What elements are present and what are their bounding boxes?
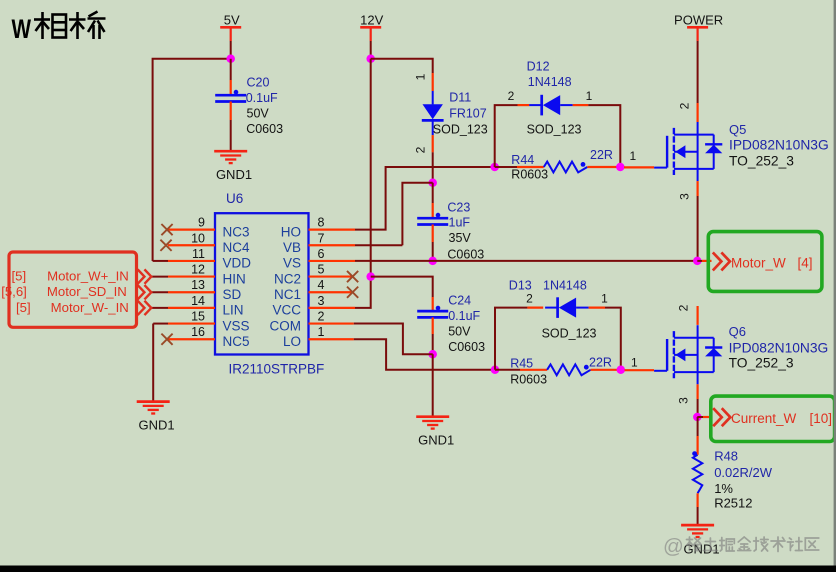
wire D12 pin2 branch <box>495 105 518 167</box>
right gray edge <box>834 0 836 566</box>
svg-text:3: 3 <box>678 193 692 200</box>
svg-text:5V: 5V <box>224 13 240 28</box>
svg-text:D12: D12 <box>527 60 550 74</box>
wire to Motor_W port <box>697 260 711 262</box>
ground GND1 under C20 <box>214 151 252 182</box>
wire VSS to GND1 <box>152 324 154 402</box>
port Current_W label <box>731 411 832 426</box>
label C23 35V <box>449 231 472 245</box>
label R48 1% <box>714 481 733 496</box>
svg-text:12V: 12V <box>360 13 383 28</box>
pin R45 right stub <box>591 369 621 371</box>
svg-text:SD: SD <box>223 287 242 302</box>
node 5V junction <box>226 55 235 64</box>
node R44-gate junction <box>616 163 625 172</box>
port chevron LIN <box>138 301 152 315</box>
pin D13-2 stub <box>527 307 543 309</box>
svg-text:1N4148: 1N4148 <box>543 278 587 292</box>
pin 8 HO stub <box>309 229 356 231</box>
svg-text:1: 1 <box>630 149 637 163</box>
svg-text:[5]: [5] <box>12 269 27 284</box>
svg-text:NC5: NC5 <box>223 334 250 349</box>
pin 1 LO stub <box>309 338 354 340</box>
pin Q5 source stub <box>696 181 698 196</box>
wire 12V rail down to VCC <box>355 59 371 308</box>
label D13 pin 2 <box>526 292 533 306</box>
svg-text:R48: R48 <box>714 449 738 464</box>
svg-text:1: 1 <box>318 325 325 339</box>
pin 7 VB stub <box>309 244 403 246</box>
svg-text:C0603: C0603 <box>246 122 283 136</box>
svg-text:D11: D11 <box>449 91 471 105</box>
pin R48 top stub <box>696 436 698 455</box>
node 12V junction <box>366 55 375 64</box>
label D13 footprint SOD_123 <box>542 327 597 341</box>
svg-text:1: 1 <box>586 89 593 103</box>
svg-text:GND1: GND1 <box>139 418 175 433</box>
capacitor C1 pins (C20) <box>215 80 246 120</box>
pin 2 COM stub <box>309 322 354 324</box>
label D12 footprint SOD_123 <box>527 122 582 136</box>
svg-text:D13: D13 <box>509 278 532 292</box>
svg-text:0.1uF: 0.1uF <box>448 309 480 323</box>
svg-text:1: 1 <box>414 73 428 80</box>
svg-text:35V: 35V <box>449 231 472 245</box>
op-amp U6 body (IR2110 driver) <box>215 213 309 354</box>
wire VS net <box>355 260 697 262</box>
svg-text:Current_W: Current_W <box>731 411 797 426</box>
label R48 designator <box>714 449 738 464</box>
pin 15 VSS stub <box>153 322 215 324</box>
label R45 designator <box>510 357 533 371</box>
svg-text:4: 4 <box>318 278 325 292</box>
resistor R48 <box>692 451 702 493</box>
label D13 pin 1 <box>601 292 608 306</box>
svg-text:Motor_W+_IN: Motor_W+_IN <box>47 269 129 284</box>
svg-text:POWER: POWER <box>674 13 723 28</box>
svg-text:9: 9 <box>198 216 205 230</box>
pin Q5 drain stub <box>696 103 698 122</box>
label C24 C0603 <box>448 340 485 354</box>
label R45 value 22R <box>589 356 612 370</box>
wire to Current_W port <box>697 416 712 418</box>
wire D13 pin1 branch <box>605 308 621 370</box>
svg-text:6: 6 <box>318 247 325 261</box>
wire Q6 source to Current_W node <box>697 399 699 417</box>
pin Q6 source stub <box>696 384 698 399</box>
node Motor_W junction <box>693 257 702 266</box>
svg-text:FR107: FR107 <box>449 107 487 121</box>
diode D11 <box>422 73 444 152</box>
node VB junction <box>428 179 437 188</box>
label D12 pin 1 <box>586 89 593 103</box>
svg-text:Motor_W-_IN: Motor_W-_IN <box>51 300 129 315</box>
pin 13 SD stub <box>152 291 215 293</box>
node HO-R44 junction <box>490 163 499 172</box>
label C20 designator <box>247 76 270 90</box>
label R44 designator <box>511 153 534 167</box>
title text W-phase bridge (W Xiang Qiao) <box>12 12 106 45</box>
svg-text:Q5: Q5 <box>729 122 746 137</box>
wire R44 junction to Q5 gate <box>624 166 654 168</box>
wire R45 junction to Q6 gate <box>625 369 655 371</box>
label C20 C0603 <box>246 122 283 136</box>
wire D13 pin2 branch <box>495 308 527 370</box>
wire D12 pin1 branch <box>588 105 620 167</box>
transistor Q6 <box>654 325 722 384</box>
label D11 footprint SOD_123 <box>433 122 488 136</box>
svg-text:11: 11 <box>192 247 205 261</box>
label D12 designator <box>527 60 550 74</box>
pin 16 NC5 stub <box>168 338 215 340</box>
port box Motor inputs <box>9 252 137 327</box>
label Q6 footprint TO_252_3 <box>729 356 794 371</box>
label U6 part IR2110STRPBF <box>229 362 325 377</box>
port Current_W chevron <box>713 408 730 426</box>
svg-text:2: 2 <box>508 89 515 103</box>
pin 11 VDD stub <box>153 260 215 262</box>
no-connect X pin10 <box>160 240 171 251</box>
svg-text:C0603: C0603 <box>447 248 484 262</box>
svg-text:10: 10 <box>191 231 205 245</box>
no-connect X pin16 <box>161 334 172 345</box>
wire Q5 source to Motor_W node <box>697 196 699 261</box>
label D13 designator <box>509 278 532 292</box>
label U6 pin names <box>223 224 302 349</box>
label Q6 designator <box>729 324 746 339</box>
svg-text:IPD082N10N3G: IPD082N10N3G <box>729 341 829 356</box>
svg-text:[10]: [10] <box>810 411 833 426</box>
wire VB pin7 loop <box>402 183 432 246</box>
svg-text:1%: 1% <box>714 481 733 496</box>
label Q6 pin 3 <box>677 397 691 404</box>
label U6 pin numbers <box>191 216 324 340</box>
svg-text:R44: R44 <box>511 153 534 167</box>
pin 9 NC3 stub <box>168 229 215 231</box>
diode D12 <box>529 95 573 116</box>
pin D13-1 stub <box>589 307 605 309</box>
label D12 value 1N4148 <box>528 75 572 89</box>
svg-text:GND1: GND1 <box>418 433 454 448</box>
node 12V-C24 junction <box>366 272 375 281</box>
svg-text:TO_252_3: TO_252_3 <box>729 154 794 169</box>
label Q5 pin 3 <box>678 193 692 200</box>
svg-text:GND1: GND1 <box>216 167 252 182</box>
label Q6 gate pin 1 <box>631 356 638 370</box>
svg-text:C0603: C0603 <box>448 340 485 354</box>
pin R44 right stub <box>587 166 620 168</box>
wire 5V junction to VDD loop <box>153 59 231 261</box>
capacitor C23 pins and wires <box>417 183 448 261</box>
svg-text:TO_252_3: TO_252_3 <box>729 356 794 371</box>
wire 12V to C24 <box>371 277 433 297</box>
label R44 value 22R <box>590 148 613 162</box>
svg-text:15: 15 <box>191 310 205 324</box>
svg-text:NC4: NC4 <box>223 240 250 255</box>
svg-text:0.1uF: 0.1uF <box>246 91 278 105</box>
wire R48 to GND1 <box>697 507 699 525</box>
svg-text:12: 12 <box>191 263 205 277</box>
wire POWER to Q5 drain <box>697 41 699 103</box>
svg-text:2: 2 <box>677 304 691 311</box>
svg-text:VSS: VSS <box>223 318 250 333</box>
pin Q6 drain stub <box>696 306 698 325</box>
svg-text:VB: VB <box>283 240 301 255</box>
svg-text:R2512: R2512 <box>714 496 752 511</box>
label D11 pin 1 <box>414 73 428 80</box>
node LO-R45 junction <box>491 366 500 375</box>
label D11 pin 2 <box>414 146 428 153</box>
node C23-VS junction <box>428 257 437 266</box>
wire C24 to GND1 <box>432 354 434 417</box>
svg-text:14: 14 <box>191 294 205 308</box>
svg-text:50V: 50V <box>247 107 270 121</box>
port Motor_W chevron <box>713 252 730 270</box>
svg-text:U6: U6 <box>226 191 243 206</box>
no-connect X pin9 <box>161 224 172 235</box>
transistor Q5 <box>654 122 722 181</box>
svg-text:22R: 22R <box>590 148 613 162</box>
pin D12-2 stub <box>518 104 530 106</box>
wire C20 to GND1 <box>230 120 232 151</box>
watermark juejin <box>663 535 819 558</box>
wire 5V down to junction <box>230 41 232 59</box>
label C24 value 0.1uF <box>448 309 480 323</box>
label C20 value 0.1uF <box>246 91 278 105</box>
svg-text:50V: 50V <box>448 325 471 339</box>
pin 14 LIN stub <box>152 307 215 309</box>
node C24-COM junction <box>428 350 437 359</box>
pin R48 bottom stub <box>696 493 698 507</box>
wire HO net <box>355 167 495 230</box>
svg-text:0.02R/2W: 0.02R/2W <box>714 465 773 480</box>
svg-text:R45: R45 <box>510 357 533 371</box>
diode D13 <box>545 297 589 318</box>
svg-text:SOD_123: SOD_123 <box>433 122 488 136</box>
svg-text:22R: 22R <box>589 356 612 370</box>
ground GND1 under R48 <box>681 525 719 556</box>
svg-text:NC2: NC2 <box>274 271 301 286</box>
pin 12 HIN stub <box>152 275 215 277</box>
svg-text:7: 7 <box>318 231 325 245</box>
port label Motor_W+_IN <box>12 269 129 284</box>
svg-text:8: 8 <box>318 216 325 230</box>
label Q5 designator <box>729 122 746 137</box>
label C23 designator <box>447 201 470 215</box>
wire junction to C20 <box>230 59 232 80</box>
label Q5 gate pin 1 <box>630 149 637 163</box>
svg-text:SOD_123: SOD_123 <box>542 327 597 341</box>
wire Current_W node to R48 <box>697 417 699 436</box>
svg-text:VS: VS <box>283 256 301 271</box>
svg-text:C24: C24 <box>448 294 471 308</box>
svg-text:HO: HO <box>281 224 301 239</box>
label C20 50V <box>247 107 270 121</box>
port Motor_W box <box>708 232 822 292</box>
svg-text:1N4148: 1N4148 <box>528 75 572 89</box>
label Q5 footprint TO_252_3 <box>729 154 794 169</box>
pin R45 left stub <box>495 369 547 371</box>
label Q6 pin 2 <box>677 304 691 311</box>
port Current_W box <box>711 396 835 441</box>
ground GND1 under C24 <box>416 417 454 448</box>
svg-text:@: @ <box>663 535 684 558</box>
svg-text:[5,6]: [5,6] <box>1 284 27 299</box>
svg-text:C20: C20 <box>247 76 270 90</box>
svg-text:16: 16 <box>191 325 205 339</box>
svg-text:LO: LO <box>283 334 301 349</box>
pin 10 NC4 stub <box>168 244 215 246</box>
pin 4 NC1 stub <box>309 291 353 293</box>
svg-text:2: 2 <box>318 310 325 324</box>
wire 12V junction to D11 <box>371 59 433 73</box>
svg-text:Q6: Q6 <box>729 324 746 339</box>
label D13 value 1N4148 <box>543 278 587 292</box>
svg-text:[4]: [4] <box>798 255 813 270</box>
svg-text:SOD_123: SOD_123 <box>527 122 582 136</box>
wire 12V down to junction <box>370 41 372 59</box>
bottom black bar <box>0 566 836 572</box>
power 5V <box>220 13 241 42</box>
label Q6 part IPD082N10N3G <box>729 341 829 356</box>
power POWER <box>674 13 723 42</box>
label R44 footprint R0603 <box>511 167 548 181</box>
label U6 designator <box>226 191 243 206</box>
node Current_W junction <box>693 413 702 422</box>
svg-text:VDD: VDD <box>223 256 252 271</box>
capacitor C24 pins and wires <box>417 297 448 354</box>
svg-text:HIN: HIN <box>223 271 246 286</box>
label Q5 pin 2 <box>678 102 692 109</box>
svg-text:NC1: NC1 <box>274 287 301 302</box>
svg-text:Motor_SD_IN: Motor_SD_IN <box>47 284 127 299</box>
svg-text:1: 1 <box>601 292 608 306</box>
label C24 50V <box>448 325 471 339</box>
svg-text:3: 3 <box>677 397 691 404</box>
label D12 pin 2 <box>508 89 515 103</box>
port label Motor_SD_IN <box>1 284 127 299</box>
svg-text:2: 2 <box>678 102 692 109</box>
svg-text:1uF: 1uF <box>449 216 471 230</box>
label C23 value 1uF <box>449 216 471 230</box>
svg-text:2: 2 <box>526 292 533 306</box>
svg-text:5: 5 <box>318 263 325 277</box>
label D11 designator <box>449 91 471 105</box>
svg-text:3: 3 <box>318 294 325 308</box>
pin 3 VCC stub <box>309 307 356 309</box>
resistor R45 <box>547 364 591 375</box>
svg-text:Motor_W: Motor_W <box>731 255 786 270</box>
port chevron HIN <box>138 269 152 283</box>
svg-text:COM: COM <box>270 318 302 333</box>
svg-text:C23: C23 <box>447 201 470 215</box>
port Motor_W label <box>731 255 813 270</box>
svg-text:R0603: R0603 <box>511 167 548 181</box>
wire D11 to VB junction <box>432 152 434 183</box>
label R45 footprint R0603 <box>510 373 547 387</box>
wire LO net <box>354 339 495 370</box>
pin R44 left stub <box>495 166 544 168</box>
port chevron SD <box>138 285 152 299</box>
pin 6 VS stub <box>309 260 356 262</box>
label C24 designator <box>448 294 471 308</box>
pin 5 NC2 stub <box>309 275 353 277</box>
svg-text:[5]: [5] <box>16 300 31 315</box>
resistor R44 <box>544 162 588 173</box>
svg-text:R0603: R0603 <box>510 373 547 387</box>
svg-text:IR2110STRPBF: IR2110STRPBF <box>229 362 325 377</box>
ground GND1 under VSS <box>137 402 175 433</box>
svg-text:13: 13 <box>191 278 205 292</box>
label R48 footprint R2512 <box>714 496 752 511</box>
pin D12-1 stub <box>573 104 589 106</box>
wire COM net <box>354 324 433 355</box>
svg-text:IPD082N10N3G: IPD082N10N3G <box>729 138 829 153</box>
label R48 value 0.02R/2W <box>714 465 773 480</box>
port label Motor_W-_IN <box>16 300 129 315</box>
no-connect X pin4 <box>347 287 358 298</box>
svg-text:1: 1 <box>631 356 638 370</box>
svg-text:2: 2 <box>414 146 428 153</box>
label D11 value FR107 <box>449 107 487 121</box>
node R45-gate junction <box>617 366 626 375</box>
power 12V <box>360 13 383 42</box>
svg-text:W: W <box>12 14 32 44</box>
label C23 C0603 <box>447 248 484 262</box>
label Q5 part IPD082N10N3G <box>729 138 829 153</box>
svg-text:VCC: VCC <box>272 303 301 318</box>
svg-text:NC3: NC3 <box>223 224 250 239</box>
svg-text:LIN: LIN <box>223 303 244 318</box>
no-connect X pin5 <box>347 271 358 282</box>
